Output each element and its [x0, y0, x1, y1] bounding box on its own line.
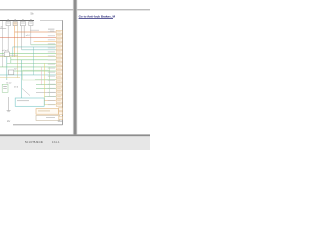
- svg-text:54 1 DT5-M4 4b: 54 1 DT5-M4 4b: [25, 141, 44, 144]
- svg-text:u4 m1: u4 m1: [2, 50, 9, 52]
- svg-text:4 b L 1: 4 b L 1: [52, 141, 60, 144]
- svg-text:Go to Anti-lock Brakes, M: Go to Anti-lock Brakes, M: [79, 15, 116, 19]
- svg-text:r5 w2: r5 w2: [6, 81, 12, 84]
